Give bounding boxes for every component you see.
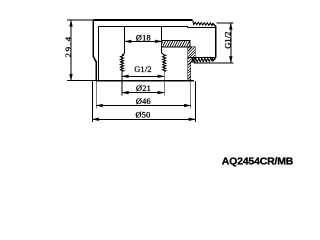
dim G1/2 female line [122, 75, 164, 77]
dim O18 line [125, 40, 162, 42]
svg-text:Ø18: Ø18 [136, 33, 151, 42]
dim O21 line [122, 92, 164, 94]
svg-text:Ø46: Ø46 [136, 97, 151, 106]
male thread stub top root line [188, 26, 216, 28]
svg-text:Ø21: Ø21 [136, 84, 151, 93]
male thread stub top crest teeth [193, 20, 213, 25]
svg-text:Ø50: Ø50 [135, 110, 150, 119]
svg-text:G1/2: G1/2 [223, 32, 233, 49]
bore line right O18 [162, 26, 165, 55]
body left edge with diameter step O50 to O46 [93, 20, 96, 81]
wire: 29.4 top extension line [67, 19, 94, 21]
dim G1/2 male top extension line [217, 22, 234, 24]
dim O50 line [92, 118, 195, 120]
dim 29.4 line [70, 20, 72, 81]
body top edge [93, 19, 192, 21]
dim O46 extension lines [95, 81, 97, 108]
male stub bottom crest line and G1/2 bottom extension [194, 62, 233, 64]
wire: 29.4 bottom extension line [67, 80, 96, 82]
svg-text:G1/2: G1/2 [134, 65, 152, 74]
male stub bottom root line [188, 56, 216, 58]
svg-text:AQ2454CR/MB: AQ2454CR/MB [222, 156, 294, 168]
male stub top chamfer [213, 23, 216, 27]
bore line left O18 [122, 26, 125, 55]
body bottom edge [96, 80, 194, 82]
inner cavity top line [99, 26, 188, 27]
dim G1/2 male line [230, 23, 232, 63]
inner left wall line [98, 26, 100, 80]
male stub bottom chamfer [213, 57, 216, 61]
svg-text:29.4: 29.4 [63, 35, 73, 57]
thread OD line left to bottom, extension for G1/2 and O21 dims [121, 71, 123, 95]
dim O46 line [96, 105, 191, 107]
female thread G1/2 left zigzag [121, 55, 124, 71]
dim O50 extension lines [91, 81, 93, 122]
male stub bottom crest teeth [191, 58, 212, 63]
section hatch: horizontal wall bar [158, 40, 197, 47]
female thread G1/2 right zigzag [163, 55, 166, 71]
section hatch: right vertical wall O50/O46 [152, 46, 232, 82]
thread OD line right to bottom, extension for G1/2 and O21 dims [163, 71, 165, 95]
male stub end face [215, 27, 217, 58]
